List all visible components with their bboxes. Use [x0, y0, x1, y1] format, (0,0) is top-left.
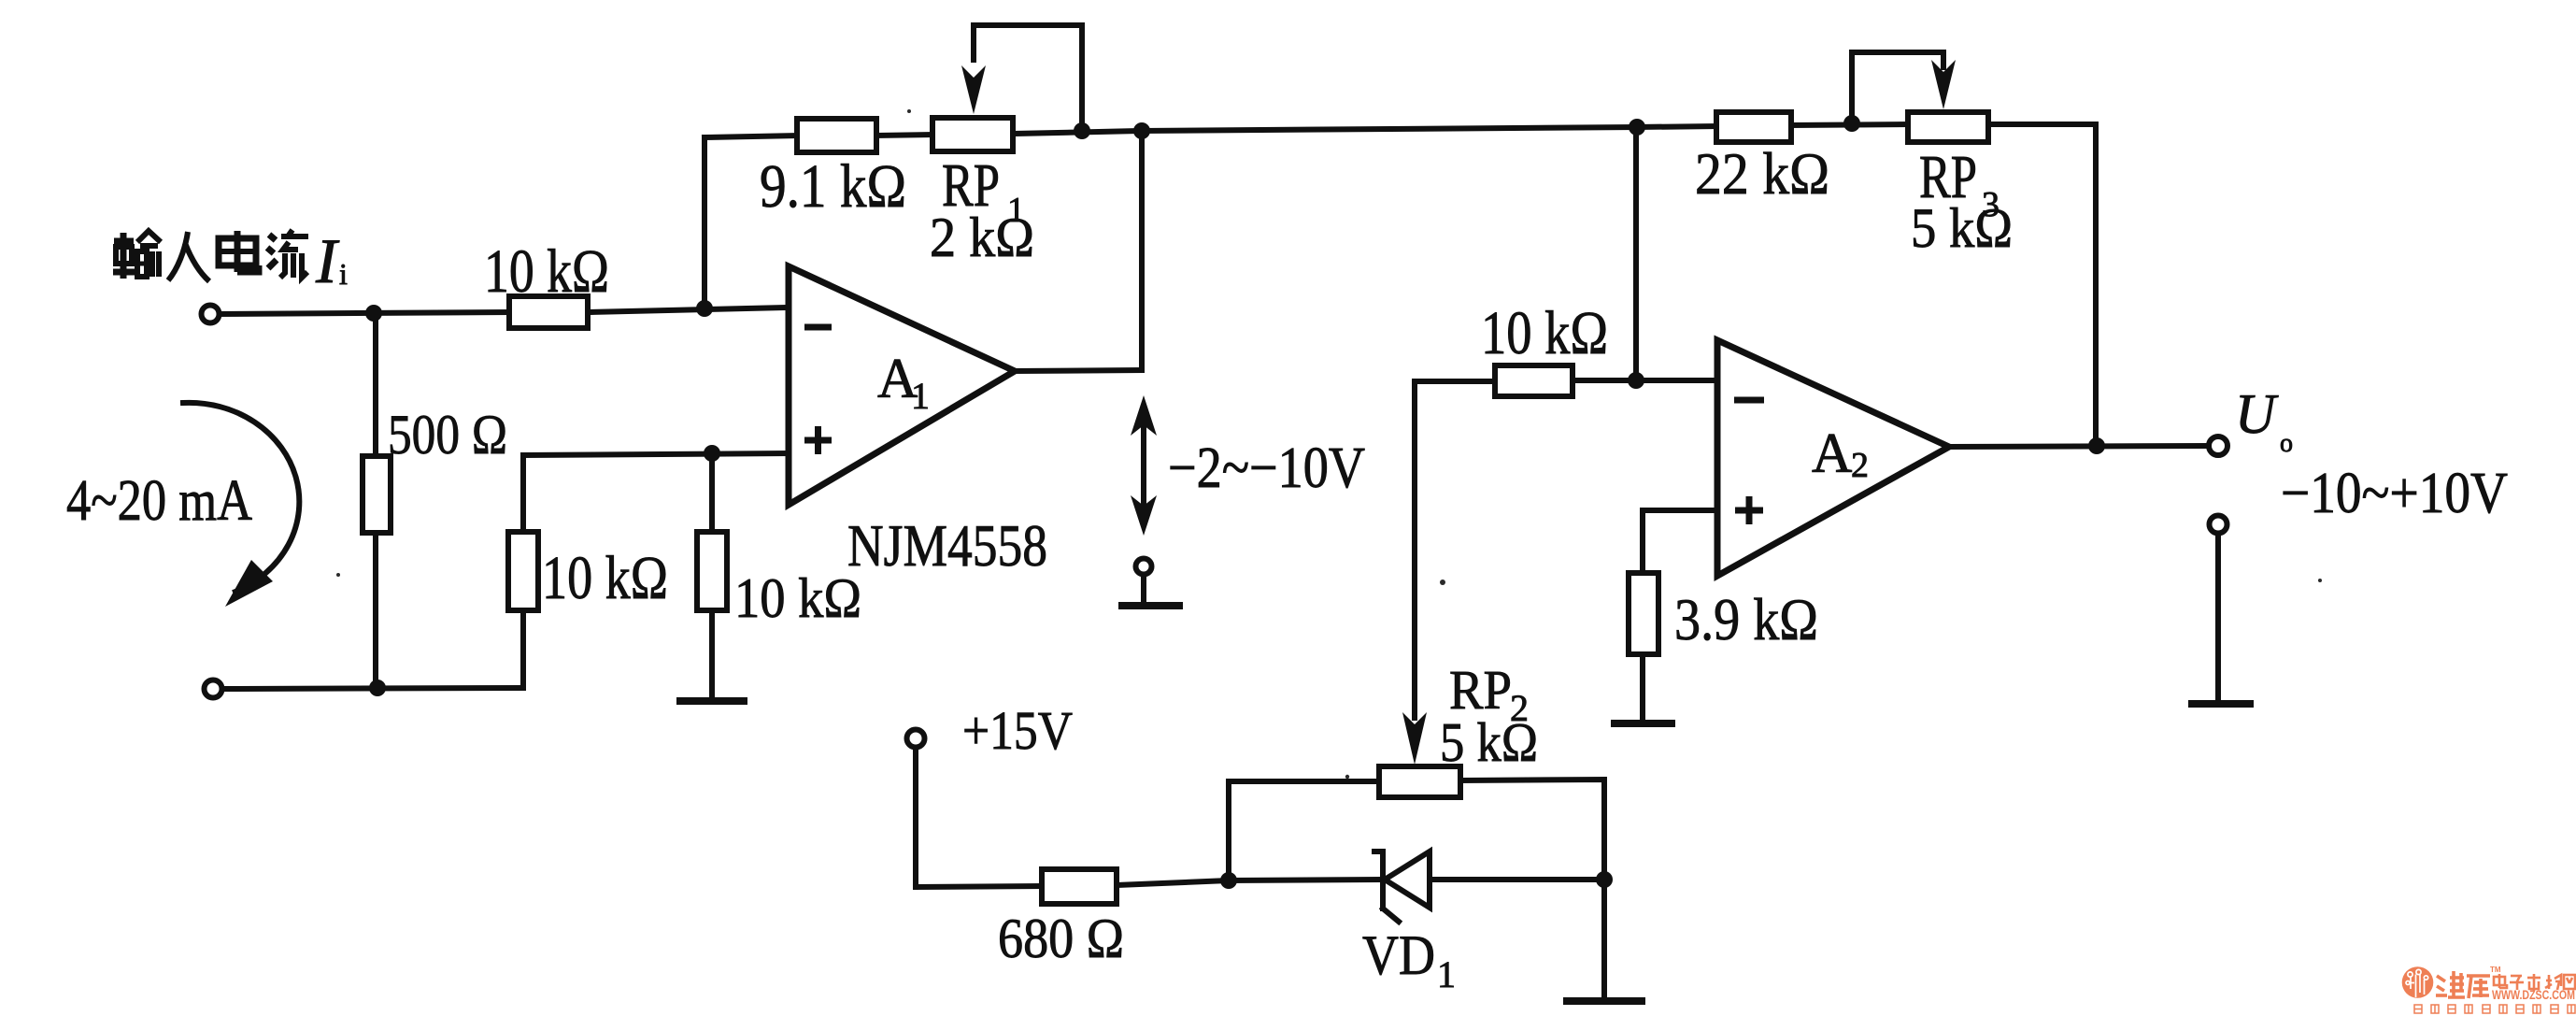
svg-text:10 kΩ: 10 kΩ	[734, 567, 861, 629]
svg-text:5 kΩ: 5 kΩ	[1440, 711, 1538, 773]
svg-text:5 kΩ: 5 kΩ	[1911, 197, 2013, 259]
svg-text:2: 2	[1851, 446, 1869, 485]
svg-text:10 kΩ: 10 kΩ	[1481, 299, 1608, 367]
svg-text:TM: TM	[2490, 966, 2501, 974]
svg-text:9.1 kΩ: 9.1 kΩ	[760, 152, 906, 221]
svg-text:NJM4558: NJM4558	[847, 513, 1047, 579]
svg-text:10 kΩ: 10 kΩ	[484, 237, 609, 306]
svg-text:A: A	[1812, 422, 1852, 484]
svg-text:2 kΩ: 2 kΩ	[930, 207, 1034, 268]
svg-text:+15V: +15V	[962, 700, 1073, 761]
svg-text:22 kΩ: 22 kΩ	[1695, 140, 1829, 207]
svg-text:o: o	[2280, 429, 2293, 458]
svg-text:10 kΩ: 10 kΩ	[542, 544, 668, 612]
svg-text:VD: VD	[1362, 924, 1435, 986]
svg-text:680 Ω: 680 Ω	[998, 908, 1124, 969]
svg-text:−2~−10V: −2~−10V	[1168, 436, 1365, 500]
svg-text:I: I	[315, 225, 340, 296]
svg-text:3.9 kΩ: 3.9 kΩ	[1674, 586, 1818, 652]
svg-text:i: i	[339, 257, 348, 291]
svg-text:4~20 mA: 4~20 mA	[66, 469, 252, 533]
svg-text:−10~+10V: −10~+10V	[2281, 462, 2508, 525]
svg-text:1: 1	[1437, 953, 1456, 995]
svg-text:500 Ω: 500 Ω	[388, 404, 507, 465]
svg-text:1: 1	[911, 375, 930, 417]
svg-text:WWW.DZSC.COM: WWW.DZSC.COM	[2492, 988, 2575, 1002]
svg-text:U: U	[2235, 383, 2279, 445]
